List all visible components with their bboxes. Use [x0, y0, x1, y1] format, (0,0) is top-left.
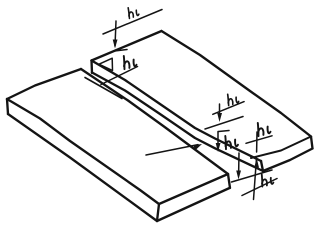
slab A top face left end edge: [7, 69, 81, 99]
label h1 top: [126, 5, 139, 18]
label h1 right upper: [225, 92, 239, 106]
slab A left corner vertical: [7, 99, 8, 114]
slab B right end bottom edge: [263, 149, 313, 172]
leader under label 3: [213, 102, 244, 115]
slab A right end vertical at E: [228, 174, 230, 188]
overbar of label 4: [219, 131, 230, 132]
slab B far long edge: [162, 31, 312, 137]
label h1 far right lower: [259, 172, 274, 187]
leader under label 6: [242, 179, 277, 196]
slab A joint double stroke: [85, 78, 122, 99]
arrowhead mid leader pointing up-right: [193, 144, 202, 150]
leader above label 6: [232, 170, 273, 182]
leader under label 5: [246, 136, 272, 144]
overbar of label 2: [115, 50, 128, 52]
dimension vertical V3: [219, 104, 221, 117]
arrowhead V3 down: [217, 113, 222, 122]
slab B near long top edge: [92, 61, 262, 162]
slab B right end vertical at S: [261, 161, 263, 171]
label h1 left lower: [121, 53, 137, 69]
label h1 far right upper: [255, 120, 271, 136]
slab A right end vertical at S: [157, 204, 159, 221]
slab B near face bottom edge: [92, 73, 263, 172]
arrowhead V4 down: [216, 143, 221, 152]
dimension vertical V1: [115, 21, 116, 46]
slab A right end bottom edge: [157, 188, 230, 221]
mid arrow leader to joint: [146, 145, 198, 155]
slab A near long edge: [7, 99, 159, 204]
open triangle arrow at W_B: [99, 58, 113, 70]
slab B right end extension stroke: [251, 137, 311, 159]
dimension vertical V5-V6: [256, 132, 258, 152]
slab B left end top edge: [92, 31, 162, 61]
slab A near face bottom edge: [8, 114, 157, 221]
label h1 right mid: [222, 133, 238, 149]
dimension vertical V7: [238, 153, 240, 175]
dimension vertical V4: [217, 132, 219, 148]
leader line under label 2: [101, 67, 138, 85]
slab B left corner vertical: [90, 61, 93, 74]
slab A right end top edge: [159, 174, 228, 204]
leader line under label 1: [103, 10, 162, 35]
arrowhead V6 up at extension: [254, 159, 259, 168]
leader M above label 4: [205, 117, 243, 130]
arrowhead V7 down: [236, 171, 241, 180]
arrowhead V1 down: [113, 40, 118, 49]
slab B right end vertical at E: [311, 137, 313, 149]
slab A far long edge: [81, 69, 228, 174]
